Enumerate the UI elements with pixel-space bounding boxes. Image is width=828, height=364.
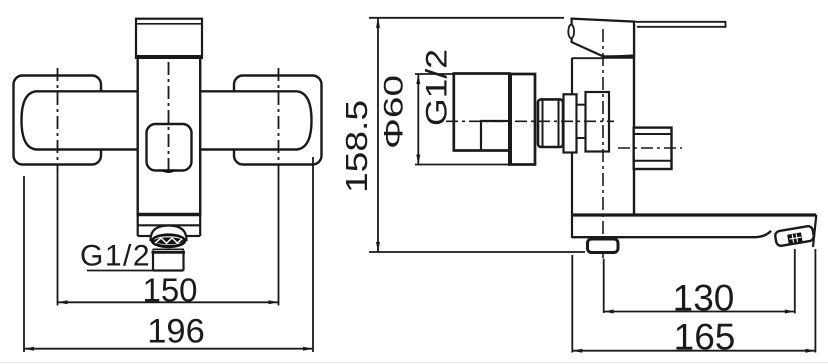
spout right end edge bbox=[813, 215, 816, 247]
handle cap (front) bbox=[136, 19, 202, 57]
svg-text:130: 130 bbox=[673, 277, 735, 318]
left escutcheon centerline bbox=[57, 68, 59, 171]
arrow 165 left bbox=[572, 349, 582, 353]
165 right extension line bbox=[814, 249, 816, 353]
arrow 158.5 bottom bbox=[376, 242, 380, 252]
spout thread right side bbox=[182, 251, 184, 271]
svg-text:158.5: 158.5 bbox=[339, 100, 374, 193]
faint page bottom edge bbox=[0, 362, 828, 364]
diverter tab below spout bbox=[588, 239, 619, 253]
aerator thread band bbox=[154, 237, 183, 244]
left escutcheon bbox=[14, 76, 102, 165]
body bottom thick line bbox=[137, 213, 202, 217]
dimension line phi60 bbox=[417, 74, 419, 165]
spout base left side bbox=[137, 215, 139, 237]
svg-text:Φ60: Φ60 bbox=[379, 75, 409, 149]
handle cap bottom thick line bbox=[135, 55, 203, 59]
130 left extension line bbox=[603, 259, 605, 314]
arrow phi60 bottom bbox=[416, 155, 420, 165]
spout base plate line bbox=[138, 224, 201, 226]
front knob upper inner line bbox=[634, 133, 672, 135]
svg-text:196: 196 bbox=[147, 313, 205, 351]
aerator grid square bbox=[787, 232, 802, 244]
spout underside bbox=[572, 231, 771, 237]
hex nut facet line left bbox=[542, 100, 544, 147]
lever block (side) bbox=[572, 19, 634, 57]
front knob (side) bbox=[634, 128, 672, 169]
svg-text:G1/2: G1/2 bbox=[421, 49, 454, 126]
aerator inner white ellipse bbox=[154, 236, 183, 245]
spout base plate lower edge left segment bbox=[138, 235, 152, 237]
wall union block bbox=[454, 74, 510, 151]
130 right extension line bbox=[794, 249, 796, 314]
aerator outer dark ellipse bbox=[151, 233, 187, 248]
dimension line 165 bbox=[572, 350, 815, 352]
spout base plate lower edge right segment bbox=[185, 235, 200, 237]
right 196 extension line bbox=[312, 157, 314, 352]
spout thread collar thin line bbox=[153, 248, 185, 250]
dimension line 150 bbox=[58, 301, 279, 303]
body top edge left of lever bbox=[572, 57, 605, 59]
arrow 196 right bbox=[303, 347, 313, 351]
spout base right side bbox=[199, 215, 201, 237]
wall union inner rect bbox=[481, 121, 510, 151]
neck between sleeve and boss bbox=[577, 105, 586, 138]
escutcheon edge-on bbox=[510, 74, 536, 165]
right escutcheon centerline bbox=[278, 68, 280, 171]
svg-text:165: 165 bbox=[674, 317, 736, 358]
pipe axis centerline bbox=[446, 120, 614, 122]
body (side) left edge bbox=[571, 58, 573, 238]
inlet boss on body bbox=[586, 92, 610, 152]
right escutcheon bbox=[234, 76, 322, 165]
escutcheon wall face thick edge bbox=[508, 73, 512, 166]
right inlet pipe bbox=[199, 91, 311, 149]
svg-text:G1/2: G1/2 bbox=[80, 240, 151, 273]
165 left extension line bbox=[571, 255, 573, 353]
158.5 bottom extension line bbox=[369, 251, 585, 253]
right 150 extension line bbox=[278, 170, 280, 306]
left inlet pipe bbox=[22, 91, 139, 149]
arrow 165 right bbox=[805, 349, 815, 353]
arrow 130 right bbox=[785, 310, 795, 314]
aerator housing (tilted) bbox=[775, 225, 815, 246]
phi60 top extension line bbox=[415, 73, 456, 75]
front knob lower inner line bbox=[634, 160, 672, 162]
arrow phi60 top bbox=[416, 74, 420, 84]
spout thread left side bbox=[152, 251, 154, 271]
phi60 bottom extension line bbox=[415, 164, 510, 166]
158.5 top extension line bbox=[369, 17, 564, 19]
body centerline (dash-dot) bbox=[168, 62, 170, 173]
spout dome bbox=[151, 226, 187, 241]
lever tip lens below square bbox=[159, 170, 178, 174]
hex nut facet line right bbox=[558, 100, 560, 147]
dimension line 130 bbox=[604, 311, 795, 313]
body (side) right edge bbox=[633, 22, 635, 215]
left 196 extension line bbox=[23, 176, 25, 352]
knob centerline bbox=[618, 147, 682, 149]
svg-text:150: 150 bbox=[142, 272, 197, 309]
handle cap inner line bbox=[137, 23, 201, 25]
dimension line 158.5 bbox=[377, 18, 379, 252]
arrow 196 left bbox=[24, 347, 34, 351]
arrow 158.5 top bbox=[376, 18, 380, 28]
faucet body (front) bbox=[138, 57, 201, 215]
spout thread collar thick line bbox=[152, 251, 186, 254]
hex nut bbox=[538, 99, 563, 147]
lever bar bbox=[634, 22, 726, 27]
arrow 130 left bbox=[604, 310, 614, 314]
G1/2 leader line bbox=[87, 270, 153, 272]
aerator thread highlights bbox=[155, 238, 182, 243]
lever block bottom thick line bbox=[602, 55, 635, 59]
lever pivot ellipse bbox=[568, 25, 574, 39]
arrow 150 left bbox=[58, 300, 68, 304]
spout thread bottom bbox=[153, 269, 184, 271]
dimension line 196 bbox=[24, 348, 313, 350]
left 150 extension line bbox=[57, 170, 59, 306]
spout top thick edge bbox=[571, 213, 816, 216]
body centerline (side) bbox=[602, 29, 604, 258]
connector sleeve bbox=[564, 94, 577, 152]
body centre square bbox=[147, 124, 192, 171]
arrow 150 right bbox=[269, 300, 279, 304]
